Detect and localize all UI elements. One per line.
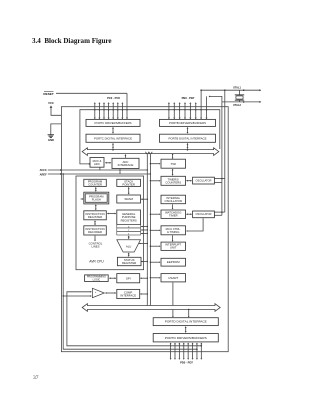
arrow port C digital to bus	[112, 144, 114, 148]
spine flare into upper bus	[145, 152, 147, 155]
junction dots on upper bus	[112, 149, 114, 151]
comparator - input from wrap A	[63, 295, 91, 297]
svg-text:SPI: SPI	[126, 276, 131, 280]
arrow timers-oscillator	[187, 180, 191, 182]
instruction decoder box	[84, 226, 107, 235]
svg-text:SRAM: SRAM	[124, 197, 133, 201]
port C pin 6	[121, 104, 123, 118]
svg-text:ADC: ADC	[94, 162, 100, 166]
wire bus to port D digital interface	[188, 310, 190, 317]
arrow decoder to control lines	[94, 236, 96, 241]
svg-text:LOGIC: LOGIC	[93, 278, 101, 281]
svg-text:VCC: VCC	[48, 101, 54, 105]
wire bus to MCU ctrl	[151, 229, 159, 231]
svg-text:UNIT: UNIT	[170, 246, 177, 250]
svg-text:TWI: TWI	[171, 162, 177, 166]
wire ALU to bus	[139, 243, 147, 245]
wire bus to watchdog timer	[151, 213, 159, 215]
port D pin 2	[178, 344, 180, 359]
svg-text:DECODER: DECODER	[88, 230, 102, 234]
svg-text:PB0 - PB7: PB0 - PB7	[182, 96, 195, 100]
wire XTAL ladder verticals to oscillators	[224, 90, 226, 212]
wire register Z to bus	[141, 233, 147, 235]
GND pin and symbol	[51, 124, 62, 135]
data bus loop top	[80, 110, 220, 164]
svg-text:XTAL2: XTAL2	[233, 104, 241, 107]
wire register Y to bus	[141, 229, 147, 231]
port D pin 6	[196, 344, 198, 359]
XTAL2 rail	[222, 101, 260, 103]
arrow instruction register to registers	[108, 213, 115, 215]
svg-text:PD0 - PD7: PD0 - PD7	[180, 361, 193, 365]
register Y row	[117, 228, 141, 232]
svg-text:OSCILLATOR: OSCILLATOR	[165, 199, 182, 203]
arrow TWI to timers	[172, 170, 174, 175]
crystal	[235, 94, 244, 96]
arrow port D digital-drivers	[185, 327, 187, 331]
svg-text:FLASH: FLASH	[92, 198, 101, 202]
comparator	[92, 288, 104, 297]
lower data bus arrow	[82, 304, 220, 312]
upper data bus arrow	[82, 148, 219, 156]
data bus spine	[146, 155, 148, 305]
port D drivers box	[153, 334, 218, 342]
svg-text:PC0 - PC6: PC0 - PC6	[107, 96, 120, 100]
svg-text:REGISTER: REGISTER	[122, 261, 136, 265]
port B pin 4	[189, 104, 191, 118]
arrow ALU to status register	[128, 254, 130, 256]
oscillator box (timers)	[193, 177, 215, 184]
svg-text:AVCC: AVCC	[40, 168, 47, 172]
port C pin 1	[98, 104, 100, 118]
timers/counters box	[161, 176, 186, 185]
arrow bus tap into program flash	[81, 198, 83, 200]
USART box	[161, 274, 186, 282]
svg-text:PORTB DIGITAL INTERFACE: PORTB DIGITAL INTERFACE	[169, 136, 207, 140]
svg-text:AREF: AREF	[40, 173, 47, 177]
wire bus to EEPROM	[151, 261, 159, 263]
arrow comparator to comp interface	[106, 292, 115, 294]
arrow program counter to flash	[95, 188, 97, 190]
comparator interface box	[117, 289, 140, 298]
svg-text:OSCILLATOR: OSCILLATOR	[196, 212, 212, 216]
EEPROM box	[161, 258, 186, 266]
port C pin 4	[112, 104, 114, 118]
wire bus to TWI	[151, 163, 159, 165]
ADC interface box	[112, 158, 139, 168]
port B pin 7	[205, 96, 207, 117]
port B digital interface box	[160, 134, 216, 142]
arrow MUX-ADC interface	[106, 162, 110, 164]
port B drivers box	[160, 119, 216, 126]
svg-text:RESET: RESET	[43, 92, 53, 96]
general purpose registers box	[117, 210, 141, 225]
stack pointer box	[117, 179, 141, 186]
port D pin 5	[192, 344, 194, 359]
port B pin 1	[173, 104, 175, 118]
register Z row	[117, 232, 141, 236]
arrow internal oscillator to watchdog	[172, 204, 174, 208]
arrow flash to instruction register	[95, 206, 97, 209]
port D pin 3	[183, 344, 185, 359]
arrow ADC interface to bus	[125, 155, 127, 158]
oscillator box (watchdog)	[193, 211, 215, 218]
port D pin 4	[187, 344, 189, 359]
wire bus to interrupt unit	[151, 245, 159, 247]
svg-text:INTERFACE: INTERFACE	[118, 163, 134, 167]
arrow watchdog-oscillator	[187, 213, 191, 215]
svg-text:PORTD DRIVERS/BUFFERS: PORTD DRIVERS/BUFFERS	[165, 336, 207, 340]
internal oscillator box	[161, 195, 186, 204]
port C pin 7	[126, 93, 128, 117]
wire AVCC	[48, 169, 148, 171]
svg-text:REGISTERS: REGISTERS	[121, 218, 137, 222]
port D digital interface box	[153, 318, 218, 326]
svg-text:GND: GND	[48, 138, 54, 142]
port C pin 2	[103, 104, 105, 118]
arrow registers to ALU	[128, 237, 130, 238]
wire SRAM to bus	[141, 198, 147, 200]
port C drivers box	[86, 119, 140, 126]
svg-text:EEPROM: EEPROM	[167, 260, 180, 264]
status register box	[117, 257, 141, 265]
port B pin 6	[200, 90, 202, 117]
port B pin 0	[168, 104, 170, 118]
port C pin 0	[94, 104, 96, 118]
port C digital interface box	[86, 134, 140, 142]
svg-text:USART: USART	[168, 276, 178, 280]
programming logic box	[85, 275, 109, 282]
svg-text:TIMER: TIMER	[169, 214, 178, 218]
AVR CPU enclosure box	[76, 176, 144, 270]
svg-text:& TIMING: & TIMING	[167, 230, 179, 234]
instruction register box	[84, 211, 107, 220]
chip outer frame	[61, 107, 228, 352]
left bus wrap wire A (AREF rail to port D)	[63, 174, 197, 349]
wire comparator interface to bus	[140, 293, 146, 295]
svg-text:COUNTER: COUNTER	[88, 182, 102, 186]
port B pin 5	[195, 104, 197, 118]
port C pin 3	[108, 104, 110, 118]
wire bus to USART	[151, 277, 159, 279]
svg-text:POINTER: POINTER	[122, 182, 134, 186]
SRAM box	[117, 195, 141, 203]
svg-text:PORTC DRIVERS/BUFFERS: PORTC DRIVERS/BUFFERS	[95, 121, 132, 125]
svg-text:INTERFACE: INTERFACE	[120, 293, 136, 297]
program counter box	[84, 179, 107, 186]
MUX & ADC box	[90, 158, 104, 168]
arrow port C drivers-digital	[112, 128, 114, 132]
svg-text:LINES: LINES	[91, 245, 99, 249]
port D pin 0	[170, 344, 172, 359]
port D pin 1	[174, 344, 176, 359]
comparator + input wrap wire B	[67, 292, 201, 346]
arrow port B digital to bus	[187, 144, 189, 148]
wire RESET to PC6 pin	[56, 92, 127, 94]
svg-text:XTAL1: XTAL1	[233, 87, 241, 90]
svg-text:OSCILLATOR: OSCILLATOR	[196, 178, 212, 182]
MCU ctrl & timing box	[161, 226, 186, 235]
port B pin 3	[184, 104, 186, 118]
XTAL2 jog to PB7	[210, 96, 222, 102]
wire bus to timers	[151, 180, 159, 182]
svg-text:COUNTERS: COUNTERS	[165, 180, 181, 184]
svg-text:REGISTER: REGISTER	[88, 215, 102, 219]
program flash box (double border)	[84, 192, 109, 204]
wire oscillator to MCU ctrl	[187, 218, 203, 231]
arrow stack pointer to SRAM	[128, 188, 130, 193]
wire USART to port D	[172, 283, 174, 317]
wire SPI to bus	[140, 277, 146, 279]
interrupt unit box	[161, 242, 186, 250]
arrow programming logic to SPI	[110, 277, 115, 279]
svg-text:ALU: ALU	[126, 245, 131, 249]
svg-text:PORTD DIGITAL INTERFACE: PORTD DIGITAL INTERFACE	[165, 320, 207, 324]
arrow bus to TWI top	[172, 155, 174, 158]
watchdog timer box	[161, 210, 186, 218]
spine flare into lower bus	[145, 305, 147, 308]
wire AREF	[48, 173, 151, 175]
port D pin 7	[200, 344, 202, 359]
wire status register to bus	[141, 261, 147, 263]
ALU trapezoid	[117, 240, 141, 252]
port B pin 2	[179, 104, 181, 118]
svg-text:PORTB DRIVERS/BUFFERS: PORTB DRIVERS/BUFFERS	[169, 121, 206, 125]
arrow port B drivers-digital	[187, 128, 189, 132]
arrow MCU ctrl to interrupt unit	[172, 235, 174, 241]
SPI box	[117, 274, 140, 283]
svg-text:AVR CPU: AVR CPU	[89, 260, 104, 264]
svg-text:PORTC DIGITAL INTERFACE: PORTC DIGITAL INTERFACE	[94, 136, 132, 140]
register X row	[117, 225, 141, 229]
XTAL1 rail	[201, 89, 259, 91]
arrow instruction register to decoder	[94, 222, 96, 224]
TWI box	[161, 159, 186, 168]
wire register X to bus	[141, 226, 147, 228]
port C pin 5	[117, 104, 119, 118]
